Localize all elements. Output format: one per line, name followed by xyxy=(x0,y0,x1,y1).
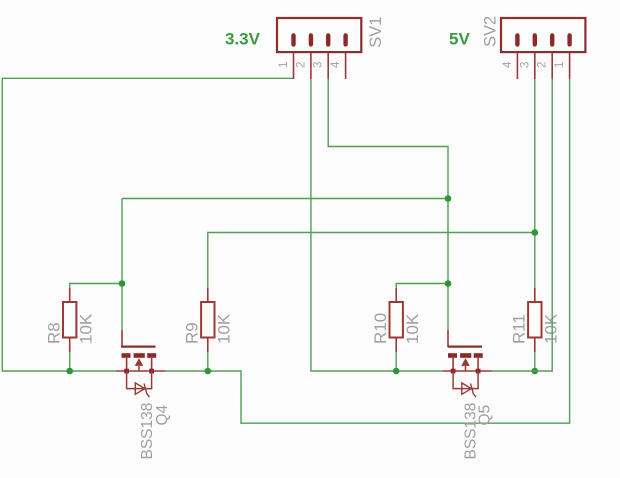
svg-text:4: 4 xyxy=(330,61,342,68)
svg-text:Q5: Q5 xyxy=(477,405,494,426)
resistor R8 xyxy=(63,288,76,352)
svg-text:2: 2 xyxy=(537,62,549,68)
svg-text:SV2: SV2 xyxy=(482,16,500,47)
svg-text:10K: 10K xyxy=(76,313,95,344)
wire R9 bottom xyxy=(207,352,209,371)
junction R10 bottom xyxy=(393,368,400,375)
svg-text:1: 1 xyxy=(278,62,290,68)
wire net SV1 pin3 to Q5 gate column xyxy=(328,79,448,199)
svg-text:2: 2 xyxy=(295,62,307,68)
svg-text:R9: R9 xyxy=(183,322,202,344)
svg-text:R11: R11 xyxy=(510,314,529,344)
junction R9 bottom xyxy=(205,368,212,375)
resistor R10 xyxy=(390,288,403,352)
svg-text:3.3V: 3.3V xyxy=(225,30,261,49)
wire R8 top branch xyxy=(70,284,122,289)
wire R9 top to y232 horizontal to SV2 pin3 column xyxy=(208,233,535,289)
junction R10 top at gate column xyxy=(445,280,452,287)
wire net Q5 rail right to SV2 pin2 xyxy=(492,79,552,371)
wire net N$1 SV1 pin1 to Q4 rail left xyxy=(2,78,293,371)
svg-text:SV1: SV1 xyxy=(367,17,385,48)
wire Q5 gate vertical xyxy=(447,199,449,331)
wire Q4 gate vertical xyxy=(121,199,123,331)
svg-text:3: 3 xyxy=(519,62,531,68)
svg-text:1: 1 xyxy=(554,62,566,68)
svg-text:R10: R10 xyxy=(371,313,390,344)
junction SV2 pin3 R11 xyxy=(532,229,539,236)
wire R10 bottom xyxy=(395,352,397,371)
junction gate link xyxy=(445,195,452,202)
resistor R11 xyxy=(528,288,541,352)
junction R11 bottom xyxy=(532,368,539,375)
svg-text:10K: 10K xyxy=(542,313,561,344)
svg-text:Q4: Q4 xyxy=(154,404,171,425)
junction R8 top at gate column xyxy=(119,280,126,287)
transistor Q4 xyxy=(116,330,166,397)
svg-text:10K: 10K xyxy=(403,313,422,344)
wire R10 top branch xyxy=(396,284,448,289)
connector SV2 xyxy=(501,18,585,79)
resistor R9 xyxy=(201,288,214,352)
wire SV2 pin3 down to R11 top xyxy=(534,79,536,288)
junction R8 bottom xyxy=(66,368,73,375)
svg-text:4: 4 xyxy=(502,61,514,68)
svg-text:10K: 10K xyxy=(215,313,234,344)
transistor Q5 xyxy=(443,330,493,397)
svg-text:5V: 5V xyxy=(449,30,470,49)
wire R11 bottom xyxy=(534,352,536,371)
wire net horizontal gate link xyxy=(122,198,448,200)
svg-text:R8: R8 xyxy=(44,322,63,344)
connector SV1 xyxy=(277,18,361,79)
svg-text:3: 3 xyxy=(313,62,325,68)
wire net SV1 pin2 down to Q5 rail left xyxy=(311,79,443,371)
wire net Q4 rail right to bottom to SV2 pin1 xyxy=(166,79,570,423)
wire R8 bottom xyxy=(69,352,71,371)
